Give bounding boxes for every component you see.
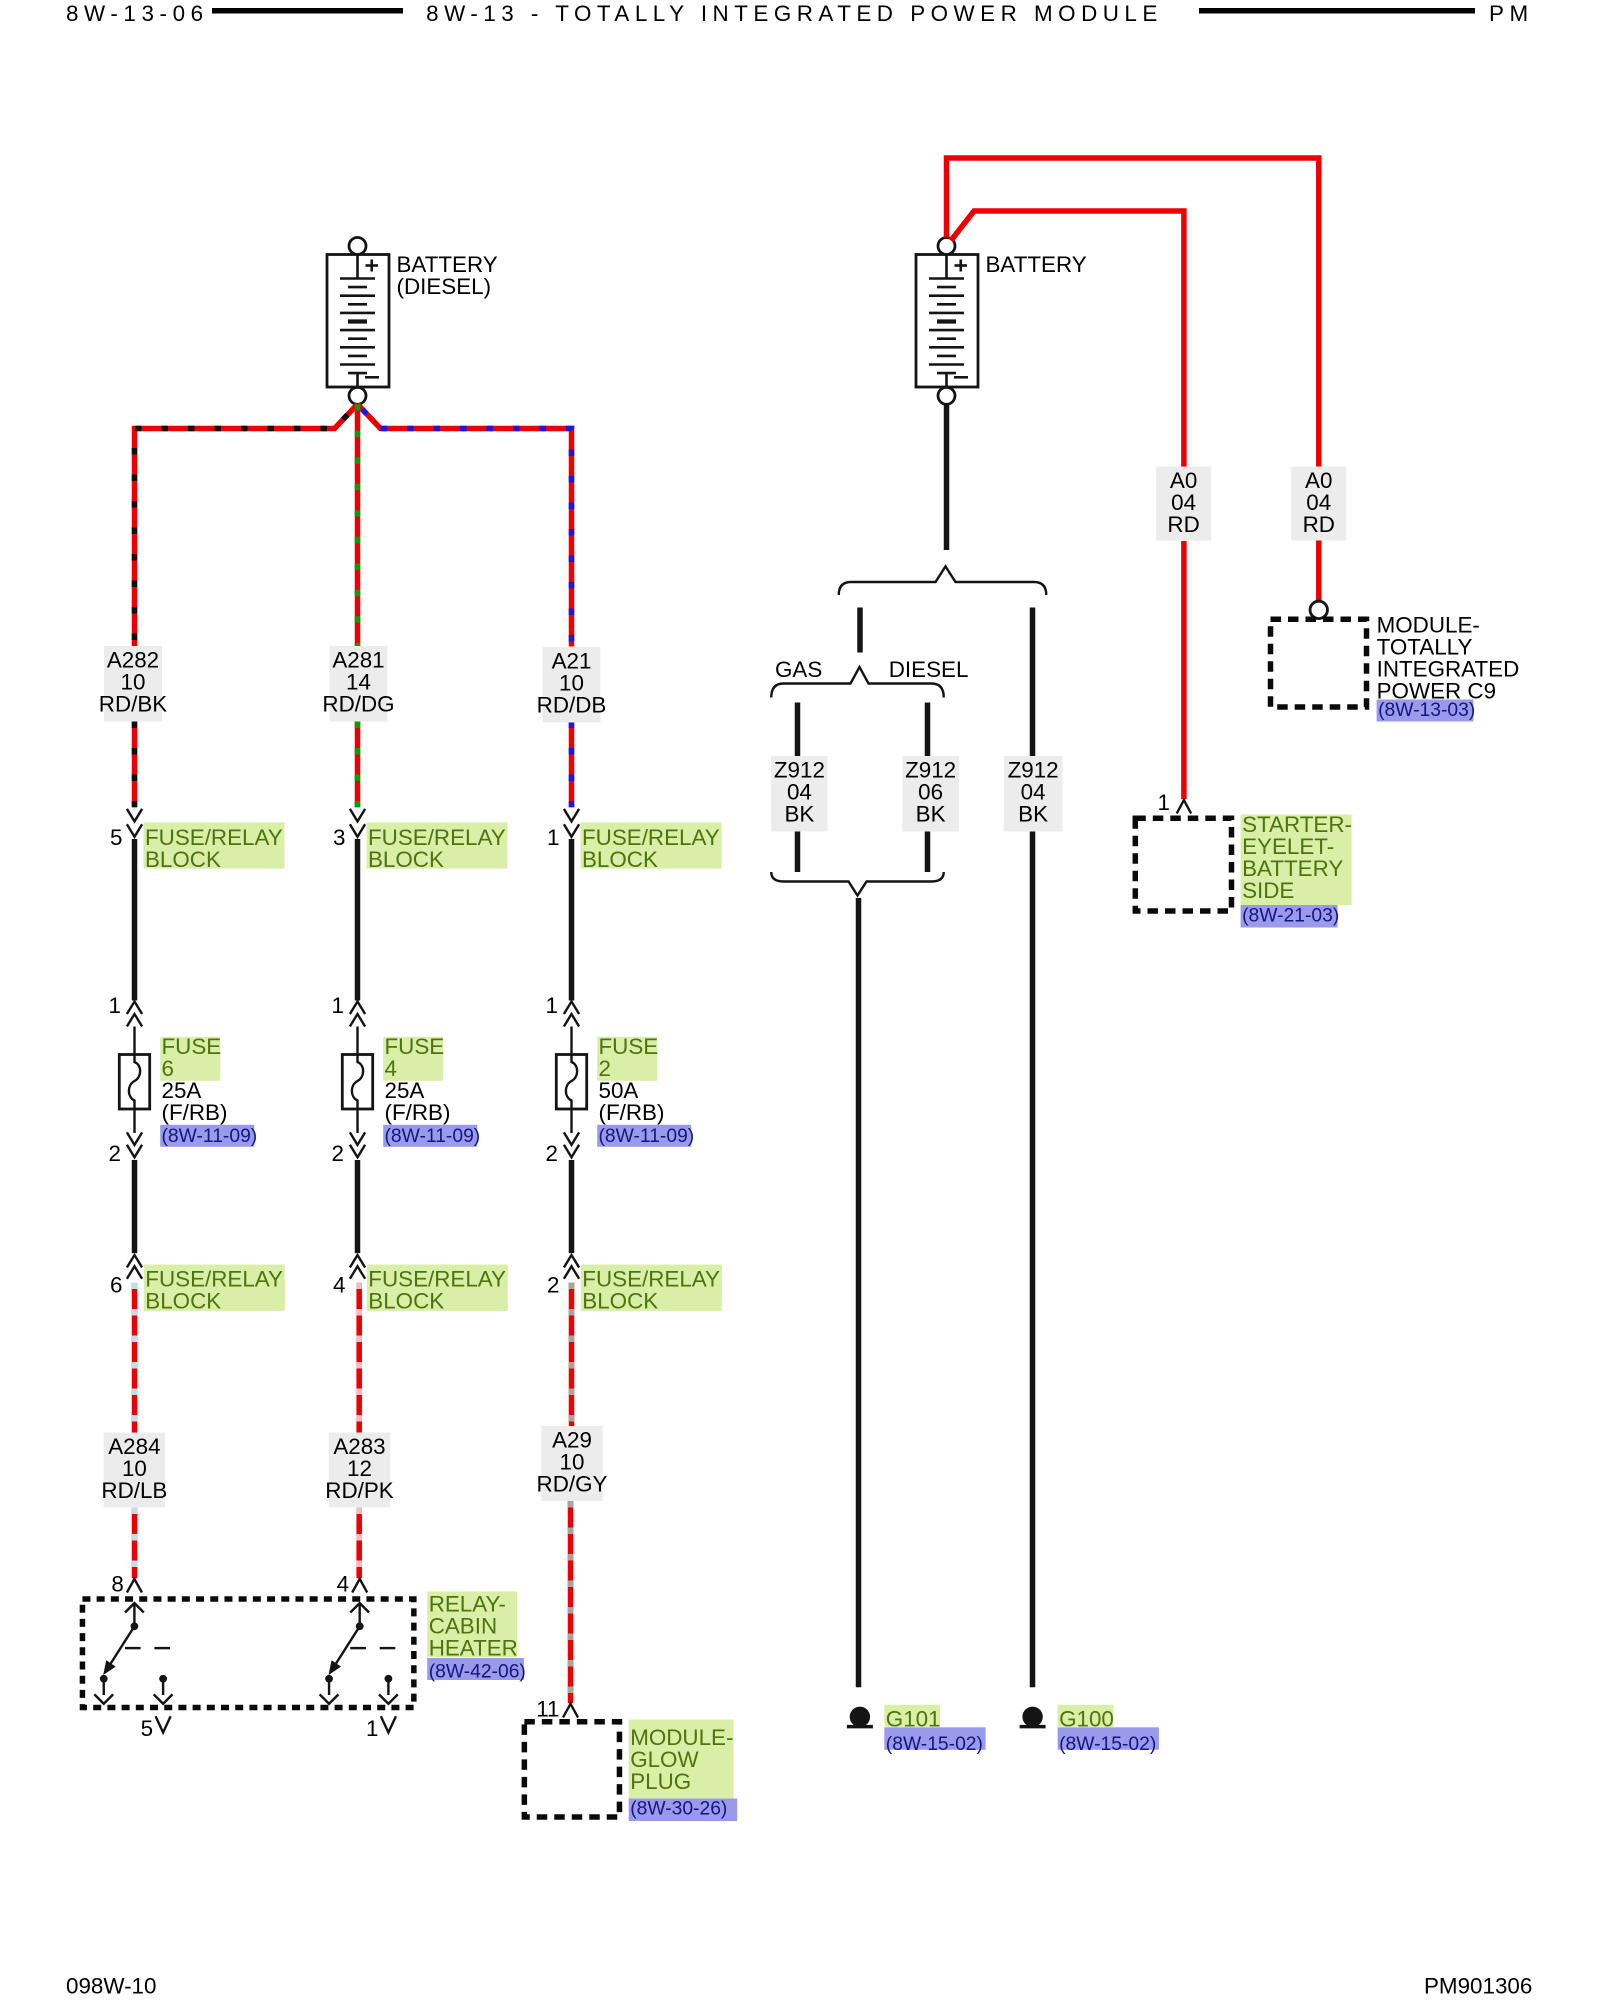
- fuse 2 labels: [597, 1037, 657, 1081]
- svg-text:4: 4: [337, 1571, 349, 1596]
- fuse 6 pin 1 connector: [127, 1002, 142, 1015]
- svg-text:SIDE: SIDE: [1242, 878, 1294, 903]
- svg-text:2: 2: [332, 1141, 344, 1166]
- svg-text:RD/DB: RD/DB: [537, 693, 607, 718]
- svg-text:1: 1: [1158, 790, 1170, 815]
- wire Z912 04 BK label to G100: [1030, 832, 1036, 1688]
- module-totally integrated power C9 terminal: [1310, 601, 1327, 618]
- brace merge to G101: [771, 872, 944, 896]
- relay pin 4: [352, 1579, 367, 1593]
- svg-text:(8W-13-03): (8W-13-03): [1378, 700, 1475, 721]
- label STARTER-EYELET-BATTERY SIDE: [1241, 815, 1352, 906]
- battery: [916, 238, 978, 405]
- module-glow plug box: [524, 1722, 619, 1817]
- fuse 4 element 25A: [342, 1055, 372, 1110]
- svg-text:1: 1: [547, 825, 559, 850]
- svg-text:1: 1: [109, 993, 121, 1018]
- fuse 4 labels: [383, 1037, 443, 1081]
- svg-text:(F/RB): (F/RB): [162, 1100, 228, 1125]
- label wire A0 04 RD (outer): [1291, 467, 1346, 541]
- label FUSE/RELAY BLOCK: [144, 822, 285, 868]
- wire inside fuse/relay block to fuse 3: [355, 839, 361, 1001]
- svg-text:(F/RB): (F/RB): [385, 1100, 451, 1125]
- relay pin 8: [127, 1579, 142, 1593]
- svg-text:11: 11: [536, 1697, 559, 1722]
- starter-eyelet pin 1: [1177, 800, 1191, 813]
- wire Z912 04 BK below label (gas): [795, 832, 801, 873]
- ground G101: [850, 1707, 870, 1727]
- label G100: [1058, 1705, 1114, 1727]
- relay contact right: [385, 1675, 393, 1683]
- label wire A21 10 RD/DB: [543, 647, 601, 723]
- relay switch blade: [110, 1626, 134, 1664]
- svg-text:3: 3: [333, 825, 345, 850]
- label wire A281 14 RD/DG: [330, 646, 388, 722]
- svg-text:BK: BK: [784, 802, 814, 827]
- svg-text:(F/RB): (F/RB): [599, 1100, 665, 1125]
- wire A283 RD/PK fuse/relay block to relay pin 4: [356, 1283, 362, 1433]
- module-glow plug pin 11: [563, 1704, 578, 1718]
- svg-text:BLOCK: BLOCK: [145, 1288, 221, 1313]
- label FUSE/RELAY BLOCK: [144, 1265, 285, 1311]
- wire A284 RD/LB fuse/relay block to relay pin 8: [132, 1283, 138, 1433]
- wire stub gas/diesel split: [857, 608, 863, 653]
- svg-text:BLOCK: BLOCK: [582, 847, 658, 872]
- wire Z912 06 BK below label (diesel): [925, 832, 931, 873]
- svg-text:RD/BK: RD/BK: [99, 692, 167, 717]
- relay switch open-position dashes: [350, 1647, 366, 1649]
- wire A0 RD battery to starter eyelet: [951, 211, 1184, 467]
- svg-text:(8W-21-03): (8W-21-03): [1242, 906, 1339, 927]
- svg-text:BLOCK: BLOCK: [368, 1288, 444, 1313]
- wire A21 tracer dashes: [358, 404, 572, 646]
- svg-text:(8W-11-09): (8W-11-09): [385, 1126, 481, 1147]
- svg-text:RD/LB: RD/LB: [101, 1478, 167, 1503]
- svg-text:(8W-42-06): (8W-42-06): [429, 1662, 526, 1683]
- fuse/relay block pin 5 connector: [127, 809, 142, 822]
- svg-text:BK: BK: [1018, 802, 1048, 827]
- svg-text:RD: RD: [1303, 512, 1335, 537]
- wire splice to G101: [856, 898, 862, 1687]
- wire inside fuse/relay block to fuse 5: [132, 839, 138, 1001]
- starter-eyelet battery side box: [1135, 818, 1231, 911]
- header rule left: [212, 8, 403, 14]
- wire Z912 04 BK (gas): [795, 703, 801, 757]
- svg-text:RD/DG: RD/DG: [322, 692, 394, 717]
- label FUSE/RELAY BLOCK: [367, 822, 508, 868]
- fuse 2 pin 1 connector: [564, 1002, 579, 1015]
- fuse 2 element 50A: [556, 1055, 586, 1110]
- svg-text:8W-13-06: 8W-13-06: [66, 1, 209, 26]
- svg-text:BLOCK: BLOCK: [368, 847, 444, 872]
- label wire A282 10 RD/BK: [104, 646, 162, 722]
- svg-text:4: 4: [333, 1273, 345, 1298]
- label wire Z912 04 BK (gas): [771, 756, 828, 832]
- svg-text:PM901306: PM901306: [1424, 1974, 1532, 1999]
- svg-text:8W-13 - TOTALLY INTEGRATED POW: 8W-13 - TOTALLY INTEGRATED POWER MODULE: [426, 1, 1163, 26]
- fuse 4 pin 2 connector: [356, 1109, 358, 1133]
- label wire A29 10 RD/GY: [541, 1426, 603, 1501]
- svg-text:098W-10: 098W-10: [66, 1974, 156, 1999]
- wire A29 RD/GY fuse/relay block to glow plug module pin 11: [569, 1283, 575, 1427]
- wire Z912 04 BK to G100: [1030, 608, 1036, 757]
- ground G100: [1022, 1707, 1042, 1727]
- svg-text:1: 1: [366, 1716, 378, 1741]
- relay-cabin heater box: [82, 1599, 413, 1708]
- fuse 6 pin 2 connector: [133, 1109, 135, 1133]
- relay switch blade: [336, 1626, 360, 1664]
- svg-text:DIESEL: DIESEL: [889, 657, 969, 682]
- svg-text:(8W-15-02): (8W-15-02): [1059, 1734, 1156, 1755]
- fuse 4 pin 1 connector: [350, 1002, 365, 1015]
- relay contact right: [159, 1675, 167, 1683]
- battery (diesel): [327, 238, 389, 405]
- svg-text:RD: RD: [1167, 512, 1199, 537]
- svg-text:PM: PM: [1489, 1, 1534, 26]
- fuse 6 element 25A: [119, 1055, 149, 1110]
- svg-text:RD/PK: RD/PK: [325, 1478, 393, 1503]
- svg-text:BATTERY: BATTERY: [986, 252, 1087, 277]
- wire A281 RD/DG battery to fuse/relay block pin 3: [355, 404, 361, 646]
- fuse/relay block pin 1 connector: [564, 809, 579, 822]
- svg-text:BLOCK: BLOCK: [145, 847, 221, 872]
- svg-text:PLUG: PLUG: [630, 1769, 691, 1794]
- fuse/relay block pin 6 connector: [127, 1255, 142, 1268]
- relay switch contact arrow up: [359, 1605, 361, 1626]
- brace gas/diesel: [771, 667, 944, 698]
- wire A281 below label: [355, 722, 361, 808]
- label FUSE/RELAY BLOCK: [581, 822, 722, 868]
- svg-text:(DIESEL): (DIESEL): [397, 274, 492, 299]
- relay switch open-position dashes: [125, 1647, 141, 1649]
- wire A21 RD/DB battery to fuse/relay block pin 1: [358, 404, 572, 646]
- fuse 6 labels: [160, 1037, 220, 1081]
- wire A282 below label: [132, 722, 138, 808]
- svg-text:2: 2: [109, 1141, 121, 1166]
- fuse/relay block pin 4 connector: [350, 1255, 365, 1268]
- brace splice battery negative: [839, 566, 1047, 595]
- svg-text:HEATER: HEATER: [429, 1636, 518, 1661]
- label wire Z912 06 BK (diesel): [902, 756, 959, 832]
- relay contact left: [100, 1675, 108, 1683]
- wire battery negative to splice brace: [944, 404, 950, 550]
- label MODULE-GLOW PLUG: [629, 1720, 734, 1799]
- wire A0 RD battery to TIPM C9: [947, 158, 1319, 467]
- wire fuse to fuse/relay block pin 4: [355, 1160, 361, 1253]
- label FUSE/RELAY BLOCK: [581, 1265, 722, 1311]
- header rule right: [1199, 8, 1475, 14]
- svg-text:1: 1: [546, 993, 558, 1018]
- svg-text:2: 2: [547, 1273, 559, 1298]
- wire A21 below label: [569, 722, 575, 808]
- svg-text:(8W-11-09): (8W-11-09): [162, 1126, 258, 1147]
- label wire A284 10 RD/LB: [104, 1433, 165, 1508]
- label wire A283 12 RD/PK: [329, 1433, 391, 1508]
- svg-text:(8W-11-09): (8W-11-09): [599, 1126, 695, 1147]
- wire A282 tracer dashes: [135, 404, 358, 646]
- relay contact left: [325, 1675, 333, 1683]
- svg-text:5: 5: [141, 1716, 153, 1741]
- svg-text:GAS: GAS: [775, 657, 822, 682]
- svg-text:8: 8: [111, 1571, 123, 1596]
- wire inside fuse/relay block to fuse 1: [569, 839, 575, 1001]
- wire fuse to fuse/relay block pin 6: [132, 1160, 138, 1253]
- label RELAY-CABIN HEATER: [427, 1591, 517, 1657]
- wire A282 RD/BK battery to fuse/relay block pin 5: [135, 404, 358, 646]
- svg-text:RD/GY: RD/GY: [537, 1472, 608, 1497]
- svg-text:(8W-15-02): (8W-15-02): [886, 1734, 983, 1755]
- module-totally integrated power C9 box: [1271, 619, 1367, 707]
- label wire A0 04 RD (inner): [1156, 467, 1211, 541]
- svg-text:2: 2: [546, 1141, 558, 1166]
- relay switch contact arrow up: [133, 1605, 135, 1626]
- svg-text:5: 5: [110, 825, 122, 850]
- label G101: [884, 1705, 940, 1727]
- svg-text:BLOCK: BLOCK: [582, 1288, 658, 1313]
- fuse 2 pin 2 connector: [570, 1109, 572, 1133]
- label wire Z912 04 BK (to G100): [1004, 756, 1063, 832]
- wire Z912 06 BK (diesel): [925, 703, 931, 757]
- wire fuse to fuse/relay block pin 2: [569, 1160, 575, 1253]
- svg-text:BK: BK: [916, 802, 946, 827]
- wire A281 tracer dashes: [355, 404, 361, 646]
- svg-text:6: 6: [110, 1273, 122, 1298]
- svg-text:1: 1: [332, 993, 344, 1018]
- fuse/relay block pin 2 connector: [564, 1255, 579, 1268]
- fuse/relay block pin 3 connector: [350, 809, 365, 822]
- label FUSE/RELAY BLOCK: [367, 1265, 508, 1311]
- svg-text:(8W-30-26): (8W-30-26): [630, 1799, 727, 1820]
